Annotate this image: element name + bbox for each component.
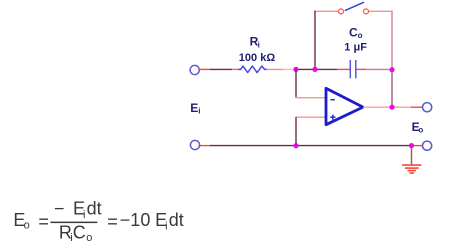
- op-amp U1 triangle: [326, 88, 363, 124]
- svg-text:i: i: [258, 40, 260, 49]
- terminal lower-right common: [423, 141, 432, 150]
- node junction dot ground rail left: [293, 143, 298, 148]
- wire summing node down to inverting input: [295, 69, 297, 97]
- node junction dot output: [389, 105, 394, 110]
- capacitor C1 left plate: [349, 60, 351, 78]
- wire left vertical of switch loop (node A to top rail): [314, 11, 316, 70]
- terminal lower-left common: [190, 140, 199, 149]
- node junction dot node B: [312, 67, 317, 72]
- wire node B to capacitor dark: [315, 68, 337, 70]
- label C_o: [349, 26, 363, 41]
- switch S1 left contact circle: [339, 9, 344, 14]
- wire top rail right segment (switch loop): [369, 10, 393, 12]
- svg-text:100 kΩ: 100 kΩ: [239, 52, 276, 64]
- svg-text:1 μF: 1 μF: [344, 42, 367, 54]
- svg-text:C: C: [73, 222, 86, 242]
- capacitor C1 right plate: [355, 60, 357, 78]
- wire inverting input horizontal salmon: [295, 97, 325, 99]
- wire op-amp output salmon: [363, 106, 392, 108]
- wire ground node to terminal red: [412, 145, 423, 147]
- wire ground rail dark left: [210, 145, 296, 147]
- wire input dark segment: [210, 68, 232, 70]
- wire node A to node B dark: [296, 68, 315, 70]
- wire red into capacitor: [337, 68, 350, 70]
- svg-text:=: =: [38, 212, 49, 232]
- svg-text:o: o: [418, 125, 423, 134]
- op-amp U1 minus sign: [330, 99, 334, 101]
- svg-text:o: o: [24, 220, 30, 232]
- label E_o: [412, 120, 424, 135]
- svg-text:o: o: [86, 232, 92, 244]
- resistor R1 zigzag: [238, 66, 267, 73]
- wire capacitor to right vertical mauve: [366, 68, 392, 70]
- terminal input E_i: [190, 65, 199, 74]
- wire right vertical cap node to output node: [391, 70, 393, 108]
- node junction dot capacitor-right: [389, 67, 394, 72]
- svg-text:i: i: [83, 209, 85, 221]
- wire right vertical of switch loop (top rail to cap output node): [391, 11, 393, 70]
- wire input red segment: [200, 68, 210, 70]
- wire top rail left segment (switch loop): [314, 10, 338, 12]
- op-amp U1 plus sign: [330, 115, 335, 120]
- ground bars: [402, 165, 421, 173]
- svg-text:i: i: [198, 106, 200, 115]
- wire output red segment to terminal: [411, 106, 423, 108]
- svg-text:−: −: [54, 199, 65, 219]
- node junction dot summing node: [293, 67, 298, 72]
- svg-text:=: =: [107, 212, 118, 232]
- fraction bar: [50, 222, 97, 224]
- svg-text:i: i: [165, 220, 167, 232]
- label R_i: [250, 34, 260, 49]
- wire noninverting input horizontal salmon: [295, 116, 325, 118]
- wire output node to terminal red: [392, 106, 411, 108]
- svg-text:dt: dt: [169, 210, 184, 230]
- terminal output E_o: [423, 103, 432, 112]
- node junction dot ground: [409, 143, 414, 148]
- wire ground rail dark right: [296, 145, 412, 147]
- label E_i: [190, 101, 200, 116]
- wire noninverting input down to ground rail: [295, 117, 297, 145]
- switch S1 lever: [345, 2, 364, 10]
- wire resistor to node salmon: [267, 68, 283, 70]
- formula E_o = (- Ei dt)/(Ri Co) = -10 Ei dt: [13, 199, 183, 245]
- wire ground rail red segment left: [200, 145, 210, 147]
- wire red out of capacitor: [357, 68, 366, 70]
- wire into resistor salmon segment: [232, 68, 239, 70]
- svg-text:−10: −10: [120, 210, 151, 230]
- svg-text:dt: dt: [87, 199, 102, 219]
- switch S1 right contact circle: [364, 9, 369, 14]
- svg-text:E: E: [190, 101, 198, 115]
- ground stem: [411, 146, 413, 165]
- svg-text:o: o: [358, 31, 363, 40]
- wire faded pink to summing node: [283, 68, 296, 70]
